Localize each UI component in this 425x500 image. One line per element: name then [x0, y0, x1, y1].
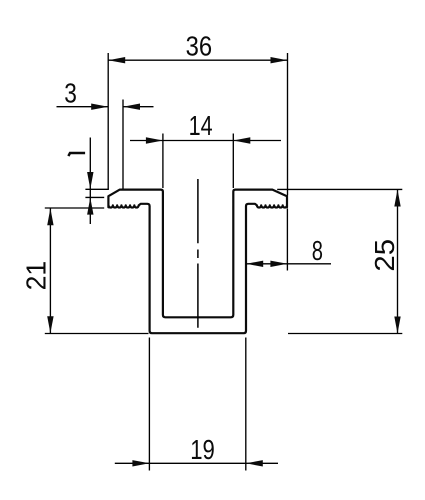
svg-text:14: 14	[189, 111, 213, 142]
svg-text:21: 21	[20, 261, 52, 291]
svg-text:3: 3	[64, 78, 77, 109]
svg-text:25: 25	[370, 239, 401, 272]
svg-text:8: 8	[312, 236, 323, 267]
svg-text:19: 19	[190, 434, 215, 465]
svg-text:36: 36	[186, 30, 212, 62]
